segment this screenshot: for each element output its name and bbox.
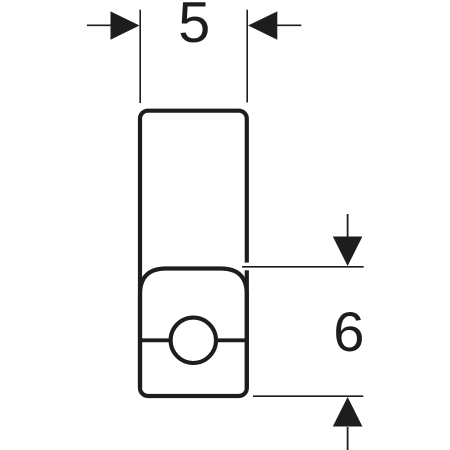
- svg-text:5: 5: [178, 0, 210, 55]
- svg-text:6: 6: [333, 300, 364, 363]
